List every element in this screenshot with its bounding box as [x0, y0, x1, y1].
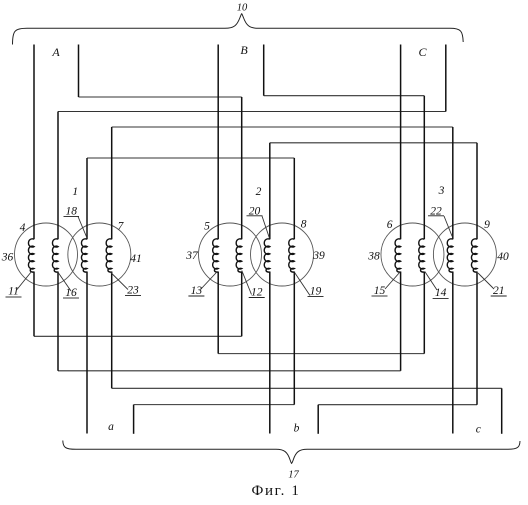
svg-text:10: 10	[237, 3, 248, 14]
svg-text:15: 15	[374, 285, 386, 297]
svg-text:A: A	[51, 45, 60, 59]
svg-text:Фиг. 1: Фиг. 1	[252, 483, 301, 499]
svg-text:41: 41	[130, 253, 142, 265]
svg-text:13: 13	[191, 285, 203, 297]
svg-text:23: 23	[127, 285, 139, 297]
svg-text:20: 20	[249, 206, 261, 218]
svg-text:22: 22	[430, 206, 442, 218]
svg-text:2: 2	[256, 186, 262, 198]
svg-text:38: 38	[367, 251, 380, 263]
svg-text:1: 1	[72, 186, 78, 198]
svg-text:a: a	[108, 421, 114, 433]
svg-text:9: 9	[484, 219, 490, 231]
svg-text:12: 12	[251, 287, 263, 299]
svg-text:14: 14	[435, 287, 447, 299]
svg-text:17: 17	[288, 470, 299, 481]
svg-text:8: 8	[301, 219, 307, 231]
svg-text:36: 36	[1, 252, 14, 264]
svg-text:16: 16	[65, 287, 77, 299]
svg-text:c: c	[476, 424, 481, 436]
svg-text:21: 21	[493, 285, 505, 297]
svg-text:5: 5	[204, 221, 210, 233]
svg-text:B: B	[240, 43, 248, 57]
svg-text:39: 39	[312, 250, 325, 262]
svg-text:6: 6	[387, 219, 393, 231]
svg-text:40: 40	[497, 251, 509, 263]
svg-text:3: 3	[438, 185, 445, 197]
svg-text:4: 4	[20, 222, 26, 234]
svg-text:C: C	[418, 45, 427, 59]
svg-text:b: b	[294, 423, 300, 435]
svg-text:18: 18	[66, 206, 78, 218]
svg-text:11: 11	[8, 286, 19, 298]
svg-text:19: 19	[310, 286, 322, 298]
svg-text:37: 37	[185, 250, 199, 262]
